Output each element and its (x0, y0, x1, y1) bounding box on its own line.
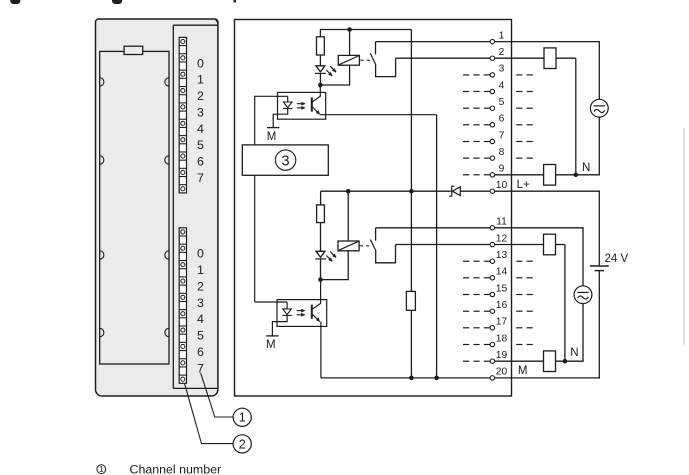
resistor R2 (317, 205, 325, 223)
dashed wire terminal 7 left (463, 141, 469, 143)
svg-text:N: N (570, 347, 578, 359)
wire U1 cathode to ground (273, 109, 288, 128)
svg-text:18: 18 (496, 333, 508, 344)
screw hole left 2 (100, 156, 104, 164)
mechanical link K1 (360, 59, 363, 61)
LED V2 emission arrows (326, 256, 332, 262)
AC source G1 (590, 99, 608, 117)
svg-text:1: 1 (197, 73, 204, 87)
wire LED2 to node (320, 259, 322, 280)
wire coil K1 top (349, 29, 351, 56)
terminal 5 (490, 106, 494, 110)
dashed wire terminal 3 right (516, 74, 522, 76)
wire U1 emitter to rail B (320, 114, 437, 116)
dashed wire terminal 4 left (463, 91, 469, 93)
module mounting tab (216, 20, 218, 23)
contact S1 arm (370, 53, 375, 64)
terminal 6 (490, 123, 494, 127)
wire R2 to LED2 (320, 223, 322, 252)
load L1 (544, 48, 556, 69)
svg-text:13: 13 (496, 250, 508, 261)
terminal 2 (490, 56, 494, 60)
LED strip upper (channels 0-7) (179, 37, 186, 193)
resistor R3 (406, 291, 415, 310)
optocoupler U2 box (277, 300, 327, 327)
24V supply wire upper (598, 191, 600, 266)
contact S2 lower path (376, 245, 396, 263)
terminal 18 (490, 342, 494, 346)
svg-text:24 V: 24 V (605, 253, 629, 265)
screw hole left 3 (100, 251, 104, 259)
node A2 (318, 277, 323, 282)
svg-text:4: 4 (197, 312, 204, 326)
wire U1 input (255, 95, 288, 97)
svg-text:3: 3 (282, 153, 290, 169)
callout line 2 (185, 383, 234, 443)
module handle (124, 46, 143, 54)
M bus wire (321, 377, 490, 379)
terminal 9 (490, 173, 494, 177)
svg-text:0: 0 (197, 247, 204, 261)
svg-text:2: 2 (197, 279, 204, 293)
block 3 circled label (275, 150, 295, 170)
ground M2 bar (266, 335, 278, 337)
svg-text:2: 2 (499, 47, 505, 58)
U1 LED (283, 102, 292, 108)
page rule (683, 128, 685, 345)
svg-text:20: 20 (496, 367, 508, 378)
svg-text:5: 5 (197, 138, 204, 152)
node rail B at M bus (434, 376, 439, 381)
dashed wire terminal 7 right (516, 141, 522, 143)
node rail A at M bus (409, 376, 414, 381)
wire U2 emitter to M bus (320, 322, 322, 378)
wire terminal 10 external (495, 190, 600, 192)
svg-text:1: 1 (197, 263, 204, 277)
callout line 1 (201, 373, 234, 417)
terminal 12 (490, 242, 494, 246)
dashed wire terminal 16 left (463, 310, 469, 312)
screw hole right 3 (165, 251, 169, 259)
svg-text:3: 3 (499, 64, 505, 75)
cut-off caption descender g1 (10, 0, 20, 4)
rail A vertical (410, 30, 412, 292)
U1 light arrows (297, 103, 303, 105)
wire LED1 to node (319, 73, 321, 85)
module front door (100, 51, 169, 364)
svg-text:7: 7 (499, 130, 505, 141)
dashed wire terminal 4 right (516, 91, 522, 93)
wire N node group2 (556, 360, 584, 362)
wire coil K2 top (347, 191, 349, 241)
wire U2 input (286, 302, 288, 309)
left rail lower (254, 175, 256, 302)
svg-text:M: M (267, 131, 277, 143)
svg-text:2: 2 (197, 89, 204, 103)
terminal 7 (490, 139, 494, 143)
svg-text:M: M (518, 365, 528, 377)
U2 LED (283, 309, 292, 315)
svg-text:1: 1 (239, 411, 246, 425)
screw hole left 4 (100, 328, 104, 336)
dashed wire terminal 8 left (463, 157, 469, 159)
svg-text:15: 15 (496, 283, 508, 294)
contact S2 arm (370, 240, 375, 251)
dashed wire terminal 17 left (463, 327, 469, 329)
svg-text:3: 3 (197, 105, 204, 119)
LED V1 (316, 66, 325, 72)
svg-text:9: 9 (499, 164, 505, 175)
AC source G1 wire lower (598, 117, 600, 175)
svg-text:14: 14 (496, 267, 508, 278)
terminal 13 (490, 259, 494, 263)
terminal 1 (490, 39, 494, 43)
terminal 8 (490, 156, 494, 160)
wire terminal 9 to load (495, 174, 544, 176)
contact S1 lower path (376, 58, 396, 76)
svg-text:6: 6 (499, 114, 505, 125)
dashed wire terminal 16 right (516, 310, 522, 312)
dashed wire terminal 3 left (463, 74, 469, 76)
L+ bus wire (321, 190, 451, 192)
node N1 (574, 173, 579, 178)
node N2 (563, 359, 568, 364)
L+ bus wire right (460, 190, 490, 192)
LED V2 (316, 251, 325, 257)
wire terminal 20 external (495, 377, 600, 379)
svg-text:10: 10 (496, 180, 508, 191)
dashed wire terminal 14 right (516, 277, 522, 279)
svg-text:4: 4 (197, 122, 204, 136)
ground M1 bar (267, 127, 279, 129)
dashed wire terminal 15 right (516, 294, 522, 296)
svg-text:1: 1 (99, 465, 104, 474)
battery 24V (590, 265, 609, 267)
svg-text:17: 17 (496, 317, 508, 328)
dashed wire terminal 14 left (463, 277, 469, 279)
AC source G2 wire lower (582, 304, 584, 362)
screw hole right 1 (165, 78, 169, 86)
load L2 (544, 165, 556, 186)
terminal 20 (490, 376, 494, 380)
svg-text:6: 6 (197, 345, 204, 359)
contact S1 upper terminal (375, 42, 377, 55)
optocoupler U1 box (278, 92, 326, 119)
wire terminal 12 external (495, 244, 544, 246)
wire resistor R1 top (319, 29, 321, 37)
svg-text:1: 1 (499, 30, 505, 41)
relay coil K1 (338, 55, 359, 65)
dashed wire terminal 6 right (516, 124, 522, 126)
group1 top bus wire (320, 29, 411, 31)
U2 phototransistor Q2 (311, 305, 313, 319)
dashed wire terminal 17 right (516, 327, 522, 329)
node coil2 junction (346, 189, 351, 194)
suppressor diode V3 (452, 187, 460, 196)
wire terminal 1 (376, 41, 491, 43)
AC source G1 wire upper (598, 42, 600, 100)
svg-text:12: 12 (496, 233, 508, 244)
dashed wire terminal 19 left (463, 360, 469, 362)
screw hole right 4 (165, 328, 169, 336)
svg-text:5: 5 (197, 329, 204, 343)
module body (95, 19, 217, 396)
24V supply wire lower (598, 271, 600, 379)
wire terminal 2 external (495, 57, 544, 59)
svg-text:19: 19 (496, 350, 508, 361)
left rail upper (254, 96, 256, 145)
dashed wire terminal 5 left (463, 107, 469, 109)
dashed wire terminal 13 right (516, 260, 522, 262)
cut-off caption comma (234, 0, 236, 2)
svg-text:4: 4 (499, 80, 505, 91)
contact S2 upper terminal (375, 228, 377, 241)
block 3 box (242, 145, 328, 175)
wire terminal 1 external (495, 41, 600, 43)
terminal 19 (490, 359, 494, 363)
wire terminal 11 (376, 227, 491, 229)
svg-text:2: 2 (239, 437, 246, 451)
mechanical link K2 (360, 245, 363, 247)
terminal 16 (490, 309, 494, 313)
node A1 (318, 83, 323, 88)
wire terminal 11 external (495, 227, 584, 229)
U2 light arrows (297, 310, 303, 312)
cut-off caption descender g2 (112, 0, 122, 4)
svg-text:5: 5 (499, 97, 505, 108)
terminal 11 (490, 226, 494, 230)
rail B vertical (436, 115, 438, 378)
svg-text:7: 7 (197, 171, 204, 185)
wire terminal 19 to load (495, 360, 544, 362)
svg-text:N: N (582, 162, 590, 174)
svg-text:0: 0 (197, 56, 204, 70)
dashed wire terminal 6 left (463, 124, 469, 126)
terminal 14 (490, 276, 494, 280)
LED V1 emission arrows (326, 70, 332, 76)
terminal 17 (490, 326, 494, 330)
dashed wire terminal 5 right (516, 107, 522, 109)
dashed wire terminal 18 left (463, 344, 469, 346)
svg-text:16: 16 (496, 300, 508, 311)
load L3 (544, 234, 556, 255)
wire R1 to LED1 (319, 55, 321, 66)
resistor R1 (317, 37, 325, 55)
module LED panel outline (173, 25, 217, 388)
wire terminal 2 (396, 57, 491, 59)
relay coil K2 (338, 241, 359, 251)
wire U2 collector (320, 280, 322, 304)
U1 phototransistor Q1 (311, 97, 313, 111)
wire node A2 to coil2 bottom (321, 279, 349, 281)
terminal 10 (490, 189, 494, 193)
screw hole left 1 (100, 78, 104, 86)
wire terminal 12 (396, 244, 491, 246)
node coil1 junction (347, 27, 352, 32)
svg-text:8: 8 (499, 147, 505, 158)
dashed wire terminal 15 left (463, 294, 469, 296)
svg-text:11: 11 (496, 217, 507, 228)
terminal 15 (490, 292, 494, 296)
svg-text:L+: L+ (517, 179, 530, 191)
legend symbol 1 (97, 465, 106, 474)
load L4 (544, 351, 556, 372)
LED strip lower (channels 0-7) (179, 228, 186, 383)
AC source G2 wire upper (582, 228, 584, 286)
dashed wire terminal 18 right (516, 344, 522, 346)
node rail A at L+ (409, 189, 414, 194)
wire U1 collector (319, 85, 321, 97)
AC source G2 (574, 286, 592, 304)
wire node A1 to coil bottom (320, 84, 349, 86)
terminal 4 (490, 89, 494, 93)
screw hole right 2 (165, 156, 169, 164)
dashed wire terminal 8 right (516, 157, 522, 159)
callout circle 2 (233, 435, 251, 453)
dashed wire terminal 9 left (463, 174, 469, 176)
svg-text:6: 6 (197, 155, 204, 169)
block diagram frame (235, 20, 512, 397)
callout circle 1 (233, 408, 251, 426)
svg-text:3: 3 (197, 296, 204, 310)
terminal 3 (490, 73, 494, 77)
wire resistor R2 top (320, 191, 322, 205)
wire U2 cathode to ground (272, 315, 287, 336)
wire load L3 to N (556, 244, 565, 246)
svg-text:M: M (266, 339, 276, 351)
wire N node group1 (556, 174, 600, 176)
dashed wire terminal 13 left (463, 260, 469, 262)
wire load L1 to N (556, 57, 576, 59)
svg-text:Channel number: Channel number (130, 463, 222, 475)
